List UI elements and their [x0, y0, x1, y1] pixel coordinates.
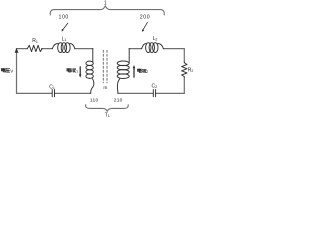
svg-text:1: 1 — [76, 70, 78, 74]
svg-text:2: 2 — [146, 70, 148, 74]
svg-text:L1: L1 — [62, 36, 67, 42]
svg-text:1: 1 — [104, 0, 107, 6]
svg-text:100: 100 — [58, 14, 68, 20]
svg-text:m: m — [103, 86, 107, 91]
svg-text:T1: T1 — [105, 113, 110, 119]
svg-text:200: 200 — [140, 14, 150, 20]
svg-text:C1: C1 — [49, 84, 55, 90]
svg-text:C2: C2 — [151, 83, 157, 89]
svg-text:210: 210 — [114, 97, 123, 103]
svg-text:110: 110 — [90, 98, 99, 104]
svg-text:L2: L2 — [153, 36, 158, 42]
svg-text:R2: R2 — [188, 67, 194, 73]
svg-text:R1: R1 — [32, 38, 38, 44]
